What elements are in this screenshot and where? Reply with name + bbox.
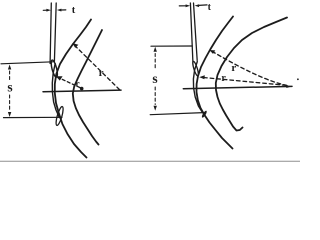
radius r dashed line upper (right) — [213, 52, 288, 86]
svg-text:r: r — [231, 62, 236, 74]
lens front surface line — [52, 64, 59, 118]
extension line left — [50, 3, 51, 64]
center dot — [80, 87, 84, 91]
dimension t arrow right — [61, 9, 66, 11]
svg-text:t: t — [72, 5, 76, 16]
axis (right) — [183, 86, 292, 88]
s bottom line (right) — [150, 113, 203, 115]
radius r dashed line long — [76, 46, 120, 89]
svg-text:r: r — [99, 67, 104, 79]
arrowhead upper r (right) — [209, 50, 215, 54]
s dashed arrow up (right) — [154, 47, 157, 52]
s top line — [1, 62, 53, 64]
svg-text:s: s — [7, 80, 12, 95]
lens bottom edge almond — [55, 106, 65, 126]
extension line right — [54, 3, 56, 62]
dimension t arrow left — [43, 9, 47, 11]
extension line right (right diagram) — [194, 3, 198, 61]
s top line (right) — [151, 45, 192, 47]
s dimension dashed arrow down — [9, 95, 11, 110]
radius r dashed line lower (right) — [203, 77, 287, 85]
curve2 cornea back — [73, 30, 102, 145]
radius r dashed line short — [60, 78, 81, 88]
svg-text:s: s — [152, 71, 157, 86]
arrowhead of long r — [72, 43, 78, 48]
lens front surface line (right) — [193, 62, 202, 113]
bottom faint rule — [0, 160, 300, 162]
curve1 cornea front — [55, 20, 91, 158]
s bottom line — [4, 116, 63, 118]
arrowhead of short r — [56, 76, 63, 80]
lens top edge almond (right) — [192, 61, 200, 77]
axis (horizontal) — [43, 90, 121, 92]
curve1 cornea front (right) — [197, 17, 234, 149]
arrowhead lower r (right) — [199, 75, 205, 79]
s dimension dashed arrow up — [8, 65, 11, 70]
dimension t arrow left (right diagram) — [179, 5, 186, 7]
lens bottom edge almond (right) — [201, 110, 208, 118]
s dashed arrow down (right) — [154, 87, 156, 105]
lens top edge almond — [50, 60, 59, 78]
svg-text:r: r — [221, 73, 226, 84]
extension line left (right diagram) — [190, 3, 193, 62]
axis end arrow (right) — [286, 85, 292, 88]
speck top right — [297, 78, 299, 80]
dimension t arrow right (right diagram) — [199, 4, 207, 7]
curve2 cornea back (right) — [216, 18, 287, 131]
